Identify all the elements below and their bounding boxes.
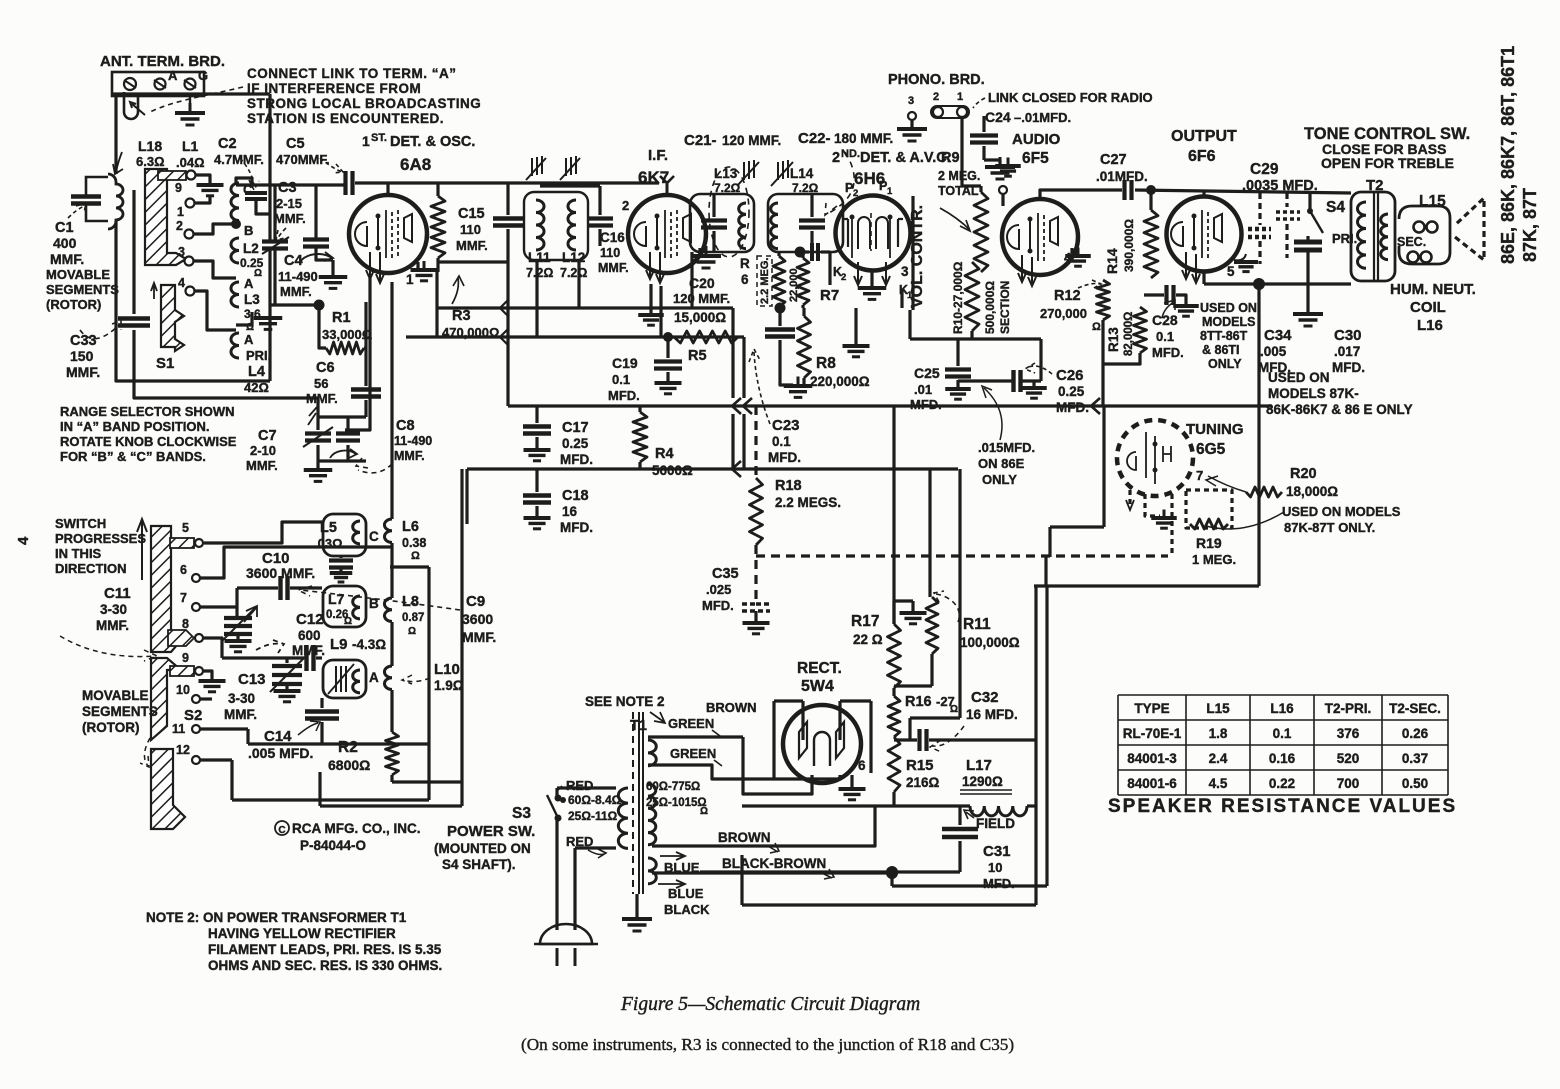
- svg-text:2: 2: [832, 150, 840, 166]
- svg-text:C25: C25: [914, 365, 940, 381]
- svg-text:POWER SW.: POWER SW.: [447, 823, 535, 840]
- svg-text:C7: C7: [258, 428, 277, 444]
- svg-text:G: G: [198, 68, 208, 83]
- svg-text:C15: C15: [458, 206, 485, 222]
- svg-text:5: 5: [1227, 264, 1235, 279]
- wire terminal2 to coil junction: [193, 224, 236, 234]
- svg-text:L11: L11: [528, 250, 551, 265]
- svg-text:520: 520: [1337, 751, 1360, 766]
- svg-text:2.2 MEG.: 2.2 MEG.: [759, 258, 771, 304]
- arrow from vol contr to R9: [940, 208, 970, 231]
- svg-text:R4: R4: [655, 446, 674, 462]
- svg-text:2.2 MEGS.: 2.2 MEGS.: [775, 495, 841, 510]
- wire x1259 bus406 to y586: [1257, 406, 1260, 586]
- coil L15 loops: [1414, 222, 1425, 233]
- svg-text:USED ON: USED ON: [1268, 370, 1330, 385]
- rotor hatched bar S1 lower: [161, 285, 184, 351]
- svg-text:L2: L2: [243, 241, 259, 256]
- hatched strip to terminal 9: [158, 171, 186, 180]
- svg-text:R18: R18: [775, 478, 802, 494]
- svg-text:0.22: 0.22: [1269, 776, 1295, 791]
- coil L14: [771, 203, 778, 249]
- svg-text:C35: C35: [712, 566, 739, 582]
- wire K2 vertical: [828, 252, 831, 285]
- svg-text:ROTATE KNOB CLOCKWISE: ROTATE KNOB CLOCKWISE: [60, 434, 237, 449]
- svg-text:400: 400: [53, 235, 77, 251]
- svg-text:15,000Ω: 15,000Ω: [674, 310, 726, 325]
- coil L6 on main vertical: [384, 519, 392, 543]
- capacitor C22 small on K2 stub: [800, 250, 809, 253]
- tube 6H6 envelope: [836, 196, 911, 271]
- svg-text:C: C: [369, 529, 379, 544]
- junction dot x319 y305: [314, 300, 325, 311]
- resistor R18 2.2megs dashed: [750, 478, 763, 545]
- junction dot coil B tap: [231, 219, 241, 229]
- svg-text:.01MFD.: .01MFD.: [1096, 169, 1148, 184]
- speaker cone dashed: [1455, 198, 1484, 260]
- svg-text:0.1: 0.1: [1273, 726, 1292, 741]
- svg-text:R7: R7: [820, 287, 839, 304]
- wire terminal9 right to ground: [195, 175, 210, 184]
- svg-text:216Ω: 216Ω: [906, 775, 940, 790]
- svg-text:FOR “B” & “C” BANDS.: FOR “B” & “C” BANDS.: [60, 449, 206, 464]
- svg-text:6A8: 6A8: [400, 155, 431, 174]
- svg-text:OHMS AND SEC. RES. IS 330 OHMS: OHMS AND SEC. RES. IS 330 OHMS.: [208, 958, 442, 973]
- svg-text:220,000Ω: 220,000Ω: [810, 374, 870, 389]
- chevron hop bus y406 x1097: [1091, 398, 1100, 414]
- capacitor C8 11-490MMF: [336, 431, 360, 435]
- svg-text:C13: C13: [238, 671, 266, 688]
- capacitor C20 120MMF inside IF can 2a: [701, 218, 727, 222]
- svg-text:A: A: [244, 276, 254, 291]
- svg-text:ST.: ST.: [371, 132, 387, 144]
- svg-text:0.50: 0.50: [1402, 776, 1428, 791]
- bus y337: [406, 335, 744, 338]
- svg-text:C12: C12: [296, 611, 324, 628]
- wire 6F6 bottom to junction: [1202, 271, 1205, 284]
- svg-text:1: 1: [362, 133, 370, 149]
- terminal 12: [192, 756, 200, 764]
- svg-text:C17: C17: [562, 420, 589, 436]
- T1 secondary mid coils: [648, 784, 656, 845]
- svg-text:C24: C24: [985, 109, 1011, 125]
- dashed vertical line C29 branch: [1258, 193, 1261, 225]
- svg-text:86K-86K7 & 86 E ONLY: 86K-86K7 & 86 E ONLY: [1266, 402, 1413, 417]
- svg-text:MFD.: MFD.: [983, 876, 1015, 891]
- svg-text:MMF.: MMF.: [280, 284, 312, 299]
- capacitor C28 0.1MFD with ground: [1164, 285, 1168, 305]
- vertical x733: [731, 308, 734, 398]
- svg-text:6: 6: [741, 272, 749, 287]
- svg-text:11-490: 11-490: [394, 434, 432, 448]
- svg-text:.005 MFD.: .005 MFD.: [248, 745, 313, 761]
- svg-text:1290Ω: 1290Ω: [962, 774, 1003, 789]
- tube 6G5 dashed envelope: [1117, 420, 1193, 496]
- svg-text:SPEAKER RESISTANCE VALUES: SPEAKER RESISTANCE VALUES: [1108, 796, 1457, 817]
- svg-text:R10-27,000Ω: R10-27,000Ω: [951, 261, 965, 334]
- svg-text:8TT-86T: 8TT-86T: [1200, 329, 1248, 343]
- svg-text:0.1: 0.1: [612, 372, 630, 387]
- capacitor C16 110MMF: [587, 216, 613, 220]
- vertical x467 left leg of y469 bus: [465, 469, 468, 524]
- capacitor C33 150MMF: [118, 316, 150, 320]
- ground right of L3: [236, 312, 252, 325]
- svg-text:3-30: 3-30: [100, 602, 127, 617]
- wire x134 vertical through C33: [132, 190, 135, 314]
- capacitor C1 400MMF: [71, 194, 101, 198]
- svg-text:7.2Ω: 7.2Ω: [792, 181, 819, 195]
- svg-text:& 86TI: & 86TI: [1202, 343, 1240, 357]
- svg-text:L3: L3: [244, 292, 260, 307]
- svg-text:MMF.: MMF.: [394, 449, 425, 463]
- svg-text:PRI.: PRI.: [1332, 231, 1357, 246]
- wire K1 to bus: [900, 290, 903, 308]
- ground under C7 box: [316, 461, 319, 469]
- coil L5 inside box: [353, 521, 360, 544]
- wire 6F5 plate to C27 to 6F6: [1040, 190, 1122, 199]
- bus y469: [467, 467, 958, 470]
- wire terminal3 right: [193, 261, 236, 278]
- transformer T2 primary coil: [1358, 202, 1366, 268]
- stator hatched bar L18-S1 upper with foot: [145, 169, 186, 265]
- svg-text:R13: R13: [1106, 327, 1121, 352]
- svg-text:C26: C26: [1056, 367, 1084, 384]
- wire L10 to R2: [390, 690, 393, 732]
- svg-text:Ω: Ω: [700, 806, 708, 817]
- wires 6F6 plate to T2: [1202, 190, 1205, 196]
- svg-text:CONNECT LINK TO TERM. “A”: CONNECT LINK TO TERM. “A”: [247, 66, 457, 81]
- svg-text:110: 110: [460, 222, 481, 237]
- dashed leader C23: [749, 349, 770, 424]
- svg-text:SECTION: SECTION: [998, 281, 1012, 334]
- capacitor C19 0.1MFD: [666, 337, 669, 358]
- svg-text:.03Ω: .03Ω: [314, 536, 343, 551]
- svg-text:HUM. NEUT.: HUM. NEUT.: [1390, 281, 1476, 298]
- svg-text:USED ON MODELS: USED ON MODELS: [1282, 504, 1401, 519]
- wire term7 to C11: [200, 605, 237, 608]
- capacitor C6 56MMF: [364, 348, 367, 386]
- T1 secondary bottom coil blue: [648, 858, 656, 884]
- ground under C11: [236, 634, 239, 640]
- wires around R3/C15: [506, 183, 509, 215]
- vertical x744: [742, 337, 745, 398]
- svg-text:–.01MFD.: –.01MFD.: [1014, 110, 1071, 125]
- svg-text:C2: C2: [218, 136, 237, 152]
- tuning supply path x1104: [1102, 406, 1105, 527]
- resistor R4 5600: [638, 406, 641, 412]
- svg-text:BROWN: BROWN: [718, 830, 771, 845]
- bus y406 long: [508, 404, 1272, 407]
- wires below IF1 can: [535, 260, 538, 337]
- voice coil box L15 L16: [1399, 206, 1450, 264]
- vertical x508: [506, 262, 509, 406]
- svg-text:DIRECTION: DIRECTION: [55, 561, 127, 576]
- ground x651 on bus308: [649, 308, 652, 314]
- svg-text:L9: L9: [330, 636, 348, 653]
- ground under G terminal: [189, 96, 191, 112]
- svg-text:(ROTOR): (ROTOR): [82, 720, 140, 735]
- ground terminal 9: [203, 671, 212, 680]
- wire S3 to plug left: [555, 788, 558, 798]
- svg-text:3: 3: [178, 245, 185, 259]
- svg-text:L10: L10: [434, 661, 460, 678]
- svg-text:0.37: 0.37: [1402, 751, 1428, 766]
- svg-text:C9: C9: [466, 593, 485, 610]
- transformer T2 can box: [1351, 192, 1395, 281]
- ground right of C26: [1032, 381, 1035, 387]
- svg-text:7.2Ω: 7.2Ω: [714, 181, 741, 195]
- resistor R12 270000: [1097, 280, 1110, 320]
- coil L12: [568, 200, 576, 250]
- svg-text:C1: C1: [55, 220, 74, 236]
- svg-text:.015MFD.: .015MFD.: [978, 440, 1035, 455]
- svg-text:5600Ω: 5600Ω: [652, 463, 693, 478]
- resistor R17 22: [888, 624, 901, 688]
- svg-text:56: 56: [314, 376, 328, 391]
- svg-text:1.8: 1.8: [1209, 726, 1228, 741]
- ground right of C24: [984, 160, 1000, 166]
- svg-text:700: 700: [1337, 776, 1360, 791]
- dashed leader to C8: [356, 458, 392, 473]
- svg-text:1: 1: [887, 186, 893, 197]
- capacitor C31 10MFD: [958, 806, 961, 825]
- svg-text:R8: R8: [816, 355, 836, 372]
- antenna coupling box with coil: [86, 177, 108, 196]
- svg-text:4: 4: [15, 536, 32, 545]
- L9 iron core marks: [335, 666, 337, 692]
- vertical x437 from 6A8 area down: [435, 272, 438, 337]
- svg-text:87K-87T ONLY.: 87K-87T ONLY.: [1284, 520, 1375, 535]
- svg-text:376: 376: [1337, 726, 1360, 741]
- svg-text:0.26: 0.26: [1402, 726, 1429, 741]
- copyright RCA: [275, 821, 289, 835]
- svg-text:MMF.: MMF.: [50, 251, 84, 267]
- coil L8: [384, 598, 392, 622]
- arrow into coil box: [113, 152, 123, 174]
- dashed leader from note to link: [150, 87, 243, 112]
- svg-text:7.2Ω: 7.2Ω: [560, 266, 587, 280]
- T1 secondary top coil green: [648, 740, 656, 766]
- arrows below tube 6K7: [646, 252, 654, 279]
- svg-text:ON 86E: ON 86E: [978, 456, 1025, 471]
- plug: [540, 924, 592, 944]
- svg-text:L15: L15: [1206, 701, 1230, 716]
- junction arrows hops on bus: [500, 300, 508, 316]
- terminal 3: [185, 257, 194, 266]
- svg-text:ND.: ND.: [841, 148, 860, 160]
- coil L16 loops: [1408, 252, 1419, 263]
- svg-text:RANGE SELECTOR SHOWN: RANGE SELECTOR SHOWN: [60, 404, 235, 419]
- svg-text:MFD.: MFD.: [608, 388, 640, 403]
- svg-text:110: 110: [600, 246, 620, 260]
- terminal 2: [185, 230, 194, 239]
- svg-text:FILAMENT LEADS, PRI. RES. IS 5: FILAMENT LEADS, PRI. RES. IS 5.35: [208, 942, 442, 957]
- svg-text:C11: C11: [104, 585, 131, 602]
- wire brown HV to bus806: [652, 806, 875, 846]
- svg-text:R5: R5: [688, 348, 707, 364]
- resistor R13 82000 vertical: [1134, 307, 1147, 353]
- svg-text:3: 3: [901, 264, 909, 279]
- arrows below 6H6: [854, 262, 862, 285]
- wire C3 C4 tops to bus y185: [273, 185, 276, 241]
- svg-text:8: 8: [182, 617, 189, 631]
- wire red to T1 primary: [557, 786, 616, 789]
- svg-text:.005: .005: [1260, 344, 1287, 359]
- svg-text:100,000Ω: 100,000Ω: [960, 635, 1020, 650]
- svg-text:ONLY: ONLY: [1208, 357, 1242, 371]
- svg-text:PHONO. BRD.: PHONO. BRD.: [888, 72, 985, 88]
- svg-text:L12: L12: [562, 250, 585, 265]
- svg-text:RED: RED: [566, 834, 593, 849]
- wires R12 R13 bottoms to bus: [1101, 330, 1104, 406]
- svg-text:Ω: Ω: [254, 268, 262, 279]
- svg-text:6K7: 6K7: [638, 168, 669, 187]
- tube 6F5 envelope: [1002, 199, 1078, 275]
- svg-text:USED ON: USED ON: [1200, 301, 1257, 315]
- svg-text:FIELD: FIELD: [976, 816, 1015, 831]
- tube 6G5 internals: [1145, 432, 1147, 478]
- label 60-8.4 25-11: [560, 797, 566, 803]
- tube 5W4 envelope: [783, 705, 861, 783]
- wire terminal4 down right: [194, 291, 236, 330]
- svg-text:R11: R11: [963, 616, 991, 633]
- svg-text:22,000: 22,000: [788, 268, 800, 302]
- wires IF1: [540, 184, 600, 187]
- svg-text:L1: L1: [182, 138, 199, 154]
- svg-text:4.7MMF.: 4.7MMF.: [214, 152, 264, 167]
- svg-text:9: 9: [175, 181, 182, 195]
- svg-text:C31: C31: [983, 843, 1011, 860]
- coil L2 L3 L4 column: [231, 183, 239, 221]
- svg-text:4: 4: [178, 276, 185, 290]
- IF can 2a box: [690, 194, 754, 252]
- rotor hatched bar S2 middle: [151, 658, 181, 740]
- arrows below tube 6A8: [366, 252, 374, 279]
- svg-text:R9: R9: [941, 150, 960, 166]
- bus y586 right segment: [1034, 584, 1259, 587]
- ground below right of 5W4: [850, 775, 853, 788]
- cap and ground under L5 box: [339, 556, 342, 558]
- ground arm top of R17: [892, 601, 895, 624]
- wire coil top to C2: [236, 178, 252, 186]
- IF can 1 box: [524, 192, 588, 260]
- svg-text:120 MMF.: 120 MMF.: [722, 133, 781, 148]
- wire y744 row: [246, 729, 249, 744]
- svg-text:84001-3: 84001-3: [1127, 751, 1177, 766]
- svg-text:HAVING YELLOW RECTIFIER: HAVING YELLOW RECTIFIER: [208, 926, 396, 941]
- ground stub under 6H6 K return: [854, 308, 857, 345]
- svg-text:.01: .01: [914, 382, 932, 397]
- svg-text:(MOUNTED ON: (MOUNTED ON: [434, 841, 531, 856]
- tube 6F6 envelope: [1167, 197, 1242, 272]
- ground top left of 6F5: [1007, 158, 1010, 167]
- svg-text:C3: C3: [278, 180, 297, 196]
- svg-text:6F6: 6F6: [1188, 148, 1216, 165]
- capacitor C4 11-490 MMF variable: [303, 237, 329, 241]
- wire antenna board down to coil box: [114, 96, 117, 174]
- resistor R10 27000 section: [965, 262, 979, 331]
- svg-text:11: 11: [172, 722, 185, 736]
- svg-text:0.1: 0.1: [772, 434, 791, 449]
- svg-text:C5: C5: [286, 136, 305, 152]
- dashed box 2.2MEG: [757, 256, 772, 306]
- coil L7 inside box: [353, 596, 360, 619]
- svg-text:C29: C29: [1250, 161, 1279, 178]
- wires below 6K7 to buses: [649, 284, 652, 308]
- svg-text:R1: R1: [332, 310, 351, 326]
- svg-text:A: A: [168, 68, 178, 83]
- svg-text:MFD.: MFD.: [768, 450, 801, 465]
- ground below 6G5 dashed: [1163, 510, 1166, 519]
- tube 6A8 internals: [355, 222, 367, 246]
- svg-text:SEGMENTS: SEGMENTS: [82, 704, 158, 719]
- wire down from junction to bus: [1257, 284, 1260, 406]
- wires green winding to 5W4 filament: [648, 735, 743, 738]
- svg-text:84001-6: 84001-6: [1127, 776, 1177, 791]
- goalpost left plate 5W4: [801, 701, 804, 740]
- resistor R1 33000 in box: [319, 305, 326, 348]
- svg-text:Ω: Ω: [408, 626, 416, 637]
- dashed leader C22 to cap: [825, 152, 854, 215]
- rotor hatched bar S2 lower: [151, 749, 185, 829]
- svg-text:R: R: [740, 256, 750, 271]
- svg-text:RL-70E-1: RL-70E-1: [1123, 726, 1182, 741]
- svg-text:MOVABLE: MOVABLE: [82, 688, 149, 703]
- speaker resistance table: [1118, 695, 1448, 795]
- grid cap top of 6K7: [666, 183, 669, 196]
- wire IF2a bottom to bus: [690, 252, 693, 308]
- svg-text:2-15: 2-15: [276, 196, 302, 211]
- wire y547 term6 to L6: [200, 547, 392, 578]
- T2 core lines: [1373, 192, 1375, 281]
- svg-text:10: 10: [988, 860, 1002, 875]
- ground terminals 9-1: [209, 184, 212, 187]
- S3 contacts: [555, 795, 562, 802]
- svg-text:1: 1: [177, 205, 184, 219]
- svg-text:120 MMF.: 120 MMF.: [673, 291, 730, 306]
- svg-text:R3: R3: [452, 308, 471, 324]
- svg-text:6G5: 6G5: [1196, 441, 1226, 458]
- svg-text:.017: .017: [1334, 344, 1360, 359]
- svg-text:C4: C4: [284, 253, 303, 269]
- capacitor C18 16MFD: [535, 469, 538, 492]
- capacitor C2 4.7MMF on C tap: [245, 191, 267, 195]
- rounded box L7: [323, 586, 366, 627]
- junction dot at 1259 284: [1253, 278, 1265, 290]
- ground under C13: [285, 684, 288, 690]
- wire L6 bottom to L8: [390, 543, 393, 598]
- svg-text:42Ω: 42Ω: [244, 380, 269, 395]
- tube 6F6 internals: [1171, 222, 1183, 246]
- svg-text:SEGMENTS: SEGMENTS: [46, 282, 119, 297]
- svg-text:1: 1: [406, 272, 414, 287]
- svg-text:PRI.: PRI.: [246, 348, 271, 363]
- wire L8 to L10: [390, 622, 393, 666]
- svg-text:2: 2: [176, 219, 183, 233]
- svg-text:0.25: 0.25: [1058, 384, 1085, 399]
- svg-text:9: 9: [182, 651, 189, 665]
- svg-text:MFD.: MFD.: [702, 598, 734, 613]
- svg-text:S3: S3: [512, 805, 531, 822]
- resistor R3 470000: [436, 183, 439, 196]
- svg-text:Figure 5—Schematic Circuit D: Figure 5—Schematic Circuit Diagram: [620, 994, 920, 1015]
- svg-text:TOTAL: TOTAL: [938, 184, 979, 198]
- bus y185 left segment: [236, 183, 345, 186]
- arm R11 bottom to R16 top: [894, 684, 932, 687]
- wire from R17 top to bus406: [892, 406, 895, 624]
- svg-text:6800Ω: 6800Ω: [328, 757, 370, 773]
- svg-text:A: A: [369, 670, 379, 685]
